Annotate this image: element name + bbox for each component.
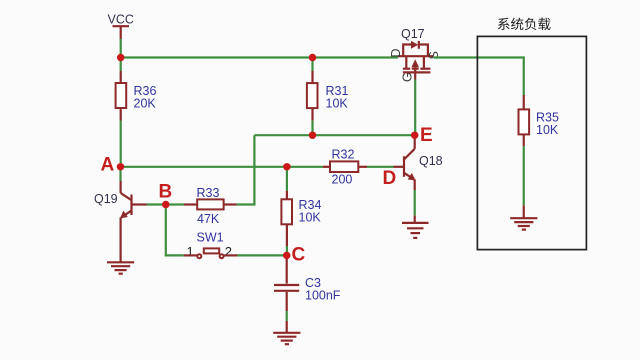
- resistor R35: [519, 95, 559, 146]
- body diode bracket: [403, 45, 411, 57]
- svg-text:Q17: Q17: [401, 27, 425, 41]
- svg-text:B: B: [159, 182, 173, 203]
- svg-text:2: 2: [225, 244, 232, 259]
- channel legs: [405, 56, 407, 67]
- resistor R36: [116, 71, 157, 121]
- wire R36 top: [120, 58, 122, 72]
- ground under Q18: [402, 216, 429, 238]
- wire Q17 gate to E: [414, 80, 416, 136]
- svg-text:10K: 10K: [299, 211, 322, 225]
- wire Q17 source to load: [434, 58, 524, 96]
- mosfet Q17: [389, 27, 441, 82]
- switch SW1: [184, 231, 237, 260]
- wire B to R33: [170, 203, 185, 205]
- svg-text:Q19: Q19: [94, 192, 118, 206]
- svg-text:20K: 20K: [134, 97, 157, 111]
- svg-text:Q18: Q18: [419, 154, 443, 168]
- junction dots repaint: [117, 54, 419, 259]
- node C: [283, 245, 305, 266]
- svg-text:10K: 10K: [326, 97, 349, 111]
- capacitor C3: [274, 255, 341, 311]
- drain-source line: [398, 55, 434, 57]
- power symbol VCC: [108, 13, 134, 40]
- wire node A rail: [121, 166, 324, 168]
- gate pin: [414, 67, 416, 79]
- wire top rail: [121, 56, 398, 58]
- node junction VCC/R36: [117, 54, 124, 61]
- node E: [411, 125, 433, 146]
- svg-text:1: 1: [187, 244, 194, 259]
- resistor R34: [281, 167, 321, 256]
- wire R33 right up to E rail: [237, 135, 255, 204]
- wire R36 to node A: [120, 121, 122, 167]
- wire Q19 base to node B: [147, 203, 166, 205]
- svg-text:D: D: [389, 48, 403, 57]
- wire VCC to top rail junction: [120, 39, 122, 58]
- ground under C3: [273, 321, 300, 344]
- bulk arrow: [411, 59, 419, 67]
- svg-text:D: D: [383, 168, 397, 189]
- wire R35 to ground: [523, 146, 525, 205]
- node junction R31 bottom: [309, 132, 316, 139]
- wire C3 to ground: [286, 311, 288, 321]
- wire E rail: [254, 134, 414, 136]
- svg-text:VCC: VCC: [108, 13, 134, 27]
- resistor R33: [184, 186, 237, 226]
- wire Q18 emitter to ground: [414, 190, 416, 216]
- resistor R31: [307, 58, 349, 136]
- svg-text:10K: 10K: [536, 123, 559, 137]
- svg-text:SW1: SW1: [197, 231, 224, 245]
- svg-text:R32: R32: [332, 148, 355, 162]
- wire A to Q19 collector: [119, 167, 121, 181]
- svg-text:47K: 47K: [197, 212, 220, 226]
- gate bar: [403, 71, 431, 73]
- wire R32 to Q18 base: [367, 166, 394, 168]
- resistor R32: [323, 148, 367, 187]
- svg-text:C: C: [292, 245, 306, 266]
- svg-text:100nF: 100nF: [305, 289, 341, 303]
- channel segments: [403, 68, 410, 70]
- svg-text:E: E: [420, 125, 433, 146]
- ground in load box: [510, 205, 537, 229]
- svg-text:A: A: [101, 155, 115, 176]
- node B: [159, 182, 173, 209]
- wire B down to switch row: [166, 205, 184, 256]
- transistor Q18: [394, 135, 443, 190]
- svg-text:G: G: [400, 72, 414, 82]
- node junction R31 top: [309, 54, 316, 61]
- ground under Q19: [107, 262, 134, 273]
- svg-text:R33: R33: [197, 186, 220, 200]
- wire SW1 pin2 to node C: [237, 254, 287, 256]
- svg-text:200: 200: [332, 173, 353, 187]
- transistor Q19: [94, 181, 147, 262]
- load box 系统负载: [477, 18, 586, 250]
- node A: [101, 155, 125, 176]
- node junction R34 top: [283, 163, 290, 170]
